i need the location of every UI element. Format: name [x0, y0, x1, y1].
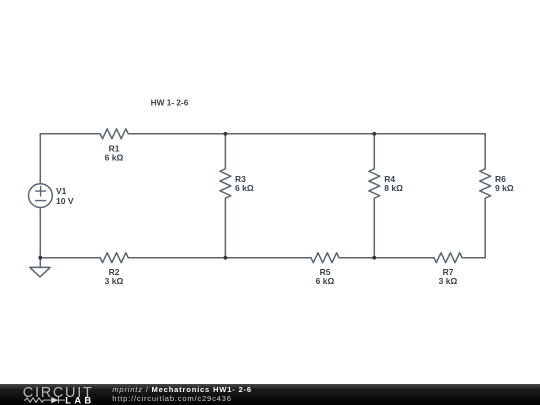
svg-text:6 kΩ: 6 kΩ: [316, 276, 335, 286]
svg-text:V1: V1: [56, 186, 67, 196]
svg-text:HW 1- 2-6: HW 1- 2-6: [151, 97, 189, 107]
svg-text:6 kΩ: 6 kΩ: [105, 152, 124, 162]
svg-text:3 kΩ: 3 kΩ: [439, 276, 458, 286]
svg-text:8 kΩ: 8 kΩ: [384, 183, 403, 193]
svg-text:mprintz / Mechatronics HW1- 2-: mprintz / Mechatronics HW1- 2-6: [112, 385, 252, 394]
svg-text:http://circuitlab.com/c29c436: http://circuitlab.com/c29c436: [112, 394, 231, 403]
svg-text:9 kΩ: 9 kΩ: [495, 183, 514, 193]
svg-text:6 kΩ: 6 kΩ: [235, 183, 254, 193]
svg-text:10 V: 10 V: [56, 196, 74, 206]
svg-text:3 kΩ: 3 kΩ: [105, 276, 124, 286]
svg-text:LAB: LAB: [65, 395, 94, 405]
